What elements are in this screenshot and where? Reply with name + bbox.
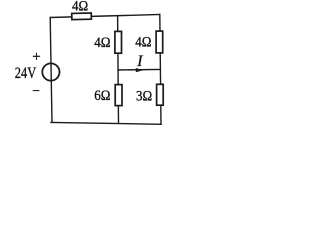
svg-text:3Ω: 3Ω: [136, 89, 152, 105]
svg-text:4Ω: 4Ω: [94, 35, 110, 51]
svg-text:I: I: [136, 53, 143, 70]
svg-text:+: +: [32, 49, 40, 65]
svg-text:4Ω: 4Ω: [72, 0, 88, 15]
svg-text:4Ω: 4Ω: [135, 35, 151, 51]
svg-text:−: −: [32, 83, 40, 98]
svg-text:24V: 24V: [15, 65, 37, 82]
svg-text:6Ω: 6Ω: [94, 88, 110, 104]
